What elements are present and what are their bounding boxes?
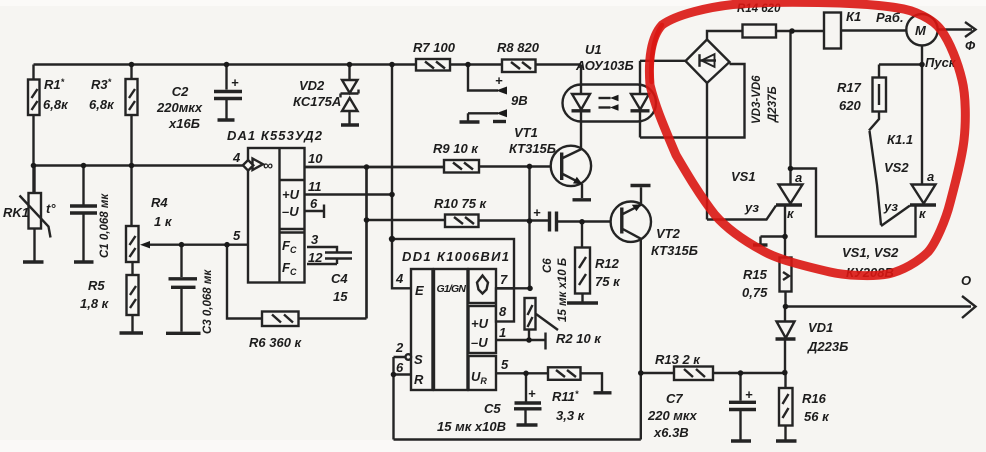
svg-text:t°: t° bbox=[46, 201, 56, 216]
resistor R5 bbox=[80, 262, 143, 333]
svg-text:+: + bbox=[231, 75, 239, 90]
svg-text:C4: C4 bbox=[331, 271, 348, 286]
capacitor C4 on pins 3/12 bbox=[307, 232, 352, 304]
DD1 +U/-U box bbox=[469, 306, 497, 353]
diode VD1 bbox=[776, 307, 849, 373]
resistor R13 bbox=[655, 352, 713, 380]
svg-text:15: 15 bbox=[333, 289, 348, 304]
svg-text:10: 10 bbox=[308, 151, 323, 166]
wire VT2 collector column to bottom rail bbox=[640, 239, 642, 440]
capacitor C3 bbox=[166, 245, 214, 334]
resistor R16 bbox=[776, 373, 830, 442]
motor M bbox=[906, 14, 937, 45]
optocoupler U1 bbox=[563, 42, 657, 122]
DD1 E column bbox=[411, 269, 433, 390]
resistor R8 bbox=[497, 40, 540, 72]
pin 11 supply wire bbox=[305, 179, 393, 195]
wire start node Пуск bbox=[879, 46, 957, 185]
svg-text:а: а bbox=[927, 169, 934, 184]
svg-text:C2: C2 bbox=[172, 84, 189, 99]
svg-text:3,3 к: 3,3 к bbox=[556, 408, 586, 423]
svg-text:R9 10 к: R9 10 к bbox=[433, 141, 479, 156]
pin 6 common wire bbox=[305, 196, 325, 218]
transistor VT2 bbox=[611, 186, 698, 259]
svg-text:C1 0,068 мк: C1 0,068 мк bbox=[99, 193, 111, 258]
capacitor C7 bbox=[647, 373, 756, 441]
transistor VT1 bbox=[509, 125, 591, 200]
wire +9V top bus bbox=[34, 63, 582, 65]
svg-text:11: 11 bbox=[308, 179, 322, 194]
thyristor VS1 bbox=[707, 83, 803, 221]
op-amp DA1 К553УД2 bbox=[227, 128, 323, 283]
phase output arrow Ф bbox=[938, 22, 976, 53]
svg-text:R16: R16 bbox=[802, 391, 827, 406]
svg-text:6,8к: 6,8к bbox=[43, 97, 69, 112]
wire photodiode bottom to bridge AC2 bbox=[640, 64, 745, 138]
svg-text:R17: R17 bbox=[837, 80, 862, 95]
svg-text:G1/GN: G1/GN bbox=[437, 283, 467, 295]
svg-text:∞: ∞ bbox=[263, 157, 273, 173]
wire VS1 anode column from R14 node bbox=[789, 31, 791, 185]
resistor R7 bbox=[413, 40, 456, 71]
wire R9 run to VT1 base bbox=[305, 165, 562, 168]
svg-text:E: E bbox=[415, 283, 424, 298]
svg-text:VD1: VD1 bbox=[808, 320, 833, 335]
capacitor C6 bbox=[533, 205, 569, 322]
svg-text:12: 12 bbox=[308, 250, 323, 265]
svg-text:К1: К1 bbox=[846, 9, 861, 24]
svg-text:С6: С6 bbox=[542, 258, 554, 273]
label VS1 VS2 type bbox=[842, 245, 899, 280]
svg-text:R5: R5 bbox=[88, 278, 105, 293]
U1 light arrows bbox=[599, 95, 619, 111]
wire second rail (sensor net) bbox=[34, 164, 244, 166]
svg-text:DD1 К1006ВИ1: DD1 К1006ВИ1 bbox=[402, 249, 509, 264]
DD1 pin 7 wire bbox=[496, 272, 530, 288]
DD1 UR box bbox=[469, 356, 497, 390]
svg-text:3: 3 bbox=[311, 232, 319, 247]
svg-text:Ф: Ф bbox=[965, 38, 976, 53]
wire R10/C6 run to VT2 base bbox=[367, 167, 622, 319]
svg-text:х16Б: х16Б bbox=[168, 116, 200, 131]
wire R6 feedback branch bbox=[227, 167, 367, 319]
svg-text:АОУ103Б: АОУ103Б bbox=[575, 58, 634, 73]
svg-text:75 к: 75 к bbox=[595, 274, 621, 289]
svg-text:уз: уз bbox=[883, 199, 898, 214]
svg-text:220 мкх: 220 мкх bbox=[647, 408, 698, 423]
svg-text:+: + bbox=[533, 205, 541, 220]
wire coil to motor, label Раб bbox=[841, 10, 907, 31]
svg-text:DA1 К553УД2: DA1 К553УД2 bbox=[227, 128, 323, 143]
svg-text:RK1: RK1 bbox=[3, 205, 29, 220]
DD1 pin 8 box bbox=[496, 289, 514, 322]
wire bottom rail bbox=[394, 438, 641, 440]
svg-text:620: 620 bbox=[839, 98, 861, 113]
relay coil K1 bbox=[824, 9, 861, 49]
resistor R15 bbox=[742, 258, 792, 307]
svg-text:4: 4 bbox=[395, 271, 404, 286]
svg-text:15 мк х10 Б: 15 мк х10 Б bbox=[557, 258, 569, 322]
svg-text:КС175А: КС175А bbox=[293, 94, 341, 109]
thyristor VS2 bbox=[881, 169, 936, 226]
svg-text:КТ315Б: КТ315Б bbox=[509, 141, 556, 156]
svg-text:6,8к: 6,8к bbox=[89, 97, 115, 112]
resistor R11 bbox=[548, 367, 612, 423]
svg-text:7: 7 bbox=[500, 272, 508, 287]
svg-text:C7: C7 bbox=[666, 391, 683, 406]
svg-text:Д237Б: Д237Б bbox=[767, 86, 779, 123]
svg-text:VD2: VD2 bbox=[299, 78, 325, 93]
svg-text:R4: R4 bbox=[151, 195, 168, 210]
zener VD2 bbox=[293, 65, 359, 126]
wire VS2 cathode to VS1 anode bbox=[791, 169, 916, 237]
svg-text:1 к: 1 к bbox=[154, 214, 173, 229]
svg-text:C5: C5 bbox=[484, 401, 501, 416]
timer DD1 К1006ВИ1 title box bbox=[392, 239, 514, 288]
svg-text:VS2: VS2 bbox=[884, 160, 909, 175]
wire bridge plus to R14 bbox=[707, 31, 743, 40]
pin 4 diamond input bbox=[232, 150, 253, 171]
svg-text:R13 2 к: R13 2 к bbox=[655, 352, 701, 367]
DD1 discharge box bbox=[469, 269, 497, 303]
wire +U vertical to pin 11 and DD1 bbox=[391, 65, 393, 240]
svg-text:4: 4 bbox=[232, 150, 241, 165]
svg-text:КТ315Б: КТ315Б bbox=[651, 243, 698, 258]
pin 10 output wire bbox=[305, 151, 445, 167]
capacitor C5 bbox=[437, 373, 542, 434]
wire left column R1/RK1 bbox=[32, 65, 34, 194]
svg-text:R10 75 к: R10 75 к bbox=[434, 196, 488, 211]
svg-text:R12: R12 bbox=[595, 256, 620, 271]
svg-text:R15: R15 bbox=[743, 267, 768, 282]
svg-text:х6.3В: х6.3В bbox=[653, 425, 689, 440]
svg-text:220мкх: 220мкх bbox=[156, 100, 203, 115]
svg-text:0,75: 0,75 bbox=[742, 285, 768, 300]
svg-text:+: + bbox=[745, 387, 753, 402]
potentiometer R4 bbox=[126, 195, 173, 262]
output wire O bbox=[786, 273, 976, 318]
resistor R14 bbox=[737, 3, 824, 38]
svg-text:М: М bbox=[915, 23, 927, 38]
svg-text:2: 2 bbox=[395, 340, 404, 355]
svg-text:R7 100: R7 100 bbox=[413, 40, 456, 55]
svg-text:–U: –U bbox=[282, 204, 299, 219]
svg-text:+U: +U bbox=[282, 187, 300, 202]
svg-text:–U: –U bbox=[471, 335, 488, 350]
svg-text:6: 6 bbox=[310, 196, 318, 211]
wire R13 run bbox=[641, 372, 785, 374]
svg-text:+: + bbox=[528, 386, 536, 401]
thermistor RK1 bbox=[3, 166, 56, 263]
resistor R6 bbox=[249, 312, 303, 351]
DD1 S/R trigger pins bbox=[394, 340, 425, 440]
resistor R10 bbox=[434, 196, 488, 227]
capacitor C1 bbox=[70, 166, 111, 263]
svg-text:5: 5 bbox=[233, 228, 241, 243]
svg-text:15 мк х10В: 15 мк х10В bbox=[437, 419, 506, 434]
relay contact K1.1 bbox=[869, 112, 913, 226]
svg-text:1: 1 bbox=[499, 325, 506, 340]
svg-text:R6 360 к: R6 360 к bbox=[249, 335, 303, 350]
svg-text:6: 6 bbox=[396, 360, 404, 375]
wiper wire of R4 to pin 5 bbox=[140, 241, 248, 248]
resistor R3 bbox=[89, 77, 138, 115]
diode bridge VD3-VD6 bbox=[686, 40, 780, 125]
svg-text:R11*: R11* bbox=[552, 389, 579, 404]
DD1 pin 4 label bbox=[395, 271, 404, 286]
resistor R17 bbox=[837, 65, 886, 114]
svg-text:R2 10 к: R2 10 к bbox=[556, 331, 602, 346]
svg-text:VT2: VT2 bbox=[656, 226, 681, 241]
DD1 pin 5 wire bbox=[496, 357, 548, 373]
wire VS1 cathode node bbox=[753, 206, 785, 258]
svg-text:R: R bbox=[414, 372, 424, 387]
svg-text:O: O bbox=[961, 273, 971, 288]
wire bridge AC1 bbox=[640, 60, 686, 62]
svg-text:1,8 к: 1,8 к bbox=[80, 296, 110, 311]
resistor R12 bbox=[567, 222, 621, 303]
U1 LED bbox=[572, 65, 591, 150]
svg-text:а: а bbox=[795, 170, 802, 185]
svg-text:S: S bbox=[414, 352, 423, 367]
9V supply annotation bbox=[460, 65, 528, 123]
svg-text:VD3-VD6: VD3-VD6 bbox=[751, 75, 763, 124]
svg-text:+U: +U bbox=[471, 316, 489, 331]
DD1 G1/GN column bbox=[434, 269, 468, 390]
svg-text:U1: U1 bbox=[585, 42, 602, 57]
red marker annotation loop bbox=[649, 2, 965, 275]
resistor R9 bbox=[433, 141, 479, 173]
DD1 pin 1 wire to common bbox=[496, 325, 546, 350]
svg-text:Д223Б: Д223Б bbox=[807, 339, 848, 354]
svg-text:+: + bbox=[495, 73, 503, 88]
svg-text:К1.1: К1.1 bbox=[887, 132, 913, 147]
svg-text:VS1, VS2: VS1, VS2 bbox=[842, 245, 899, 260]
pin 5 label bbox=[233, 228, 241, 243]
U1 photodiode bbox=[631, 61, 650, 138]
resistor R1 bbox=[28, 77, 69, 115]
svg-text:VT1: VT1 bbox=[514, 125, 538, 140]
svg-text:8: 8 bbox=[499, 304, 507, 319]
svg-text:R8 820: R8 820 bbox=[497, 40, 540, 55]
svg-text:56 к: 56 к bbox=[804, 409, 830, 424]
wire VT1 base vertical to DD1 pin 7 bbox=[528, 167, 530, 289]
svg-text:9В: 9В bbox=[511, 93, 528, 108]
svg-text:5: 5 bbox=[501, 357, 509, 372]
svg-text:C3 0,068 мк: C3 0,068 мк bbox=[202, 269, 214, 334]
svg-text:VS1: VS1 bbox=[731, 169, 756, 184]
capacitor C2 bbox=[156, 65, 242, 132]
svg-text:уз: уз bbox=[744, 200, 759, 215]
resistor R2 bbox=[525, 298, 603, 346]
wire R3/R4 column bbox=[130, 65, 132, 227]
